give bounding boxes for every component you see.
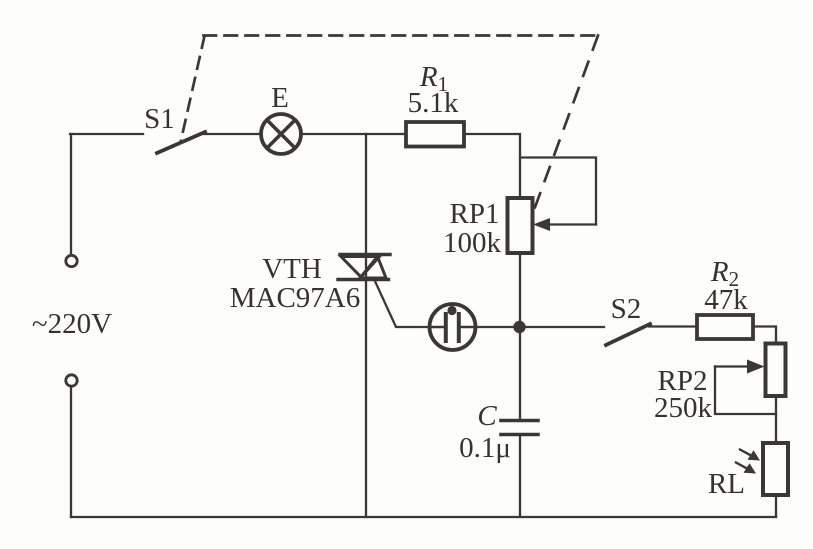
wiper arrow of RP1 — [533, 218, 596, 231]
wire R1 to corner above RP1 — [464, 134, 520, 198]
wire wiper feedback branch of RP1 — [520, 158, 596, 225]
svg-text:RL: RL — [708, 468, 745, 500]
dashed mechanical link top — [204, 34, 599, 37]
svg-text:VTH: VTH — [262, 253, 322, 285]
resistor R2 — [697, 315, 753, 339]
wire triac gate lead — [374, 279, 430, 327]
lamp E — [261, 114, 301, 154]
svg-text:~220V: ~220V — [32, 308, 112, 340]
wire RL to bottom rail — [775, 495, 777, 517]
wire top-left horizontal from left rail to switch S1 — [70, 133, 143, 135]
photoresistor RL — [763, 443, 788, 495]
wire junction to capacitor C — [519, 327, 521, 420]
svg-text:0.1μ: 0.1μ — [459, 432, 511, 464]
light arrows of RL — [736, 450, 760, 474]
dashed mechanical link right diagonal to RP1 — [534, 36, 598, 211]
triac VTH — [338, 255, 390, 280]
potentiometer RP1 — [508, 198, 533, 253]
svg-text:100k: 100k — [443, 227, 502, 259]
wire neon lamp to junction — [476, 326, 520, 328]
resistor R1 — [406, 122, 464, 147]
neon lamp touch sensor — [430, 304, 476, 350]
switch S2 blade — [606, 324, 650, 345]
wire bottom rail — [71, 516, 776, 518]
switch S1 blade — [157, 132, 205, 153]
node junction dot gate network — [513, 321, 525, 333]
wire left rail lower vertical — [70, 387, 72, 518]
wire junction to switch S2 — [526, 326, 604, 328]
wiper arrow of RP2 — [715, 360, 765, 374]
wire lamp E to resistor R1 — [301, 133, 406, 135]
wire RP2 wiper loop to bottom — [715, 367, 776, 415]
svg-text:250k: 250k — [654, 392, 713, 424]
wire triac lower vertical to bottom rail — [365, 279, 367, 518]
terminal lower of ~220V source — [66, 375, 77, 386]
svg-text:S1: S1 — [144, 103, 175, 135]
dashed mechanical link left diagonal to S1 — [181, 36, 205, 143]
capacitor C — [501, 421, 538, 435]
wire S1 to lamp E — [204, 133, 261, 135]
svg-text:MAC97A6: MAC97A6 — [230, 282, 361, 314]
svg-text:S2: S2 — [611, 293, 642, 325]
node junction top wire to triac branch — [365, 134, 367, 254]
svg-text:47k: 47k — [704, 284, 748, 316]
svg-text:5.1k: 5.1k — [408, 87, 459, 119]
wire left rail upper vertical — [70, 134, 72, 255]
wire RP2 to photoresistor RL — [775, 396, 777, 443]
svg-text:RP1: RP1 — [450, 198, 500, 230]
potentiometer RP2 — [766, 344, 786, 397]
svg-text:E: E — [271, 82, 289, 114]
terminal upper of ~220V source — [66, 255, 77, 266]
wire RP1 bottom to junction node — [519, 253, 521, 327]
wire R2 to potentiometer RP2 — [753, 327, 776, 344]
wire S2 to resistor R2 — [649, 325, 697, 327]
svg-text:C: C — [477, 400, 497, 432]
wire capacitor C to bottom rail — [519, 435, 521, 518]
